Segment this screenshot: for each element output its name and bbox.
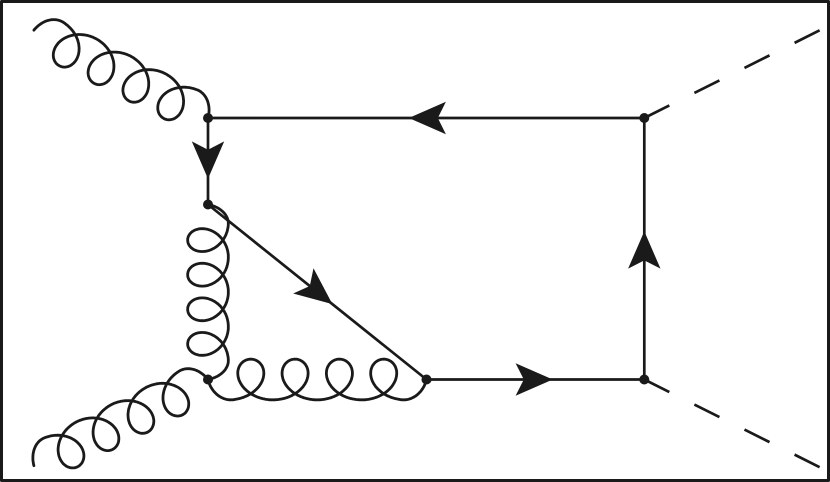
vertex dot V4 [422,375,432,385]
gluon g1 (incoming, top-left) [34,20,209,120]
fermion line right vertical [643,118,646,380]
arrow on left vertical fermion (down) [192,141,224,178]
gluon g2 (incoming, bottom-left) [33,369,208,468]
arrow on bottom fermion (right) [516,363,553,395]
dashed scalar line bottom-right [644,380,823,469]
fermion line bottom [427,378,645,381]
dashed scalar line top-right [644,29,823,118]
vertex dot V1 [203,113,213,123]
vertex dot V2 [203,200,213,210]
fermion line left vertical [207,118,210,205]
vertex dot V3 [203,375,213,385]
gluon internal horizontal [208,359,427,400]
arrow on diagonal fermion [293,268,332,304]
gluon internal vertical [188,205,229,380]
vertex dot V5 [639,375,649,385]
vertex dot V6 [639,113,649,123]
fermion line diagonal [208,205,427,380]
arrow on right vertical fermion (up) [628,231,660,268]
fermion line top (antiquark) [208,117,644,120]
arrow on top fermion (left) [409,102,446,134]
